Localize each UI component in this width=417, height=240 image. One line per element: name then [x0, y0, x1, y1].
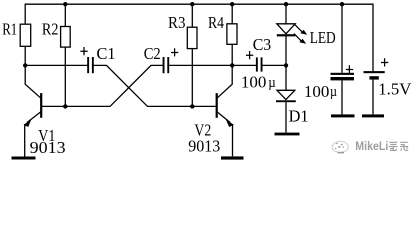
svg-text:R1: R1	[2, 19, 17, 38]
svg-text:C2: C2	[144, 44, 161, 63]
svg-text:MikeLi: MikeLi	[355, 141, 388, 153]
svg-text:D1: D1	[289, 107, 309, 126]
svg-text:C3: C3	[253, 35, 272, 54]
svg-text:R4: R4	[208, 13, 224, 32]
svg-text:LED: LED	[310, 28, 336, 47]
svg-text:µ: µ	[268, 75, 276, 91]
svg-text:µ: µ	[330, 84, 337, 100]
svg-text:9013: 9013	[30, 138, 66, 157]
svg-text:R3: R3	[168, 13, 186, 32]
svg-text:R2: R2	[42, 19, 59, 38]
svg-text:1.5V: 1.5V	[378, 80, 412, 99]
svg-text:9013: 9013	[188, 137, 220, 156]
svg-text:100: 100	[241, 72, 267, 91]
svg-text:100: 100	[304, 82, 330, 101]
svg-text:C1: C1	[97, 44, 116, 63]
